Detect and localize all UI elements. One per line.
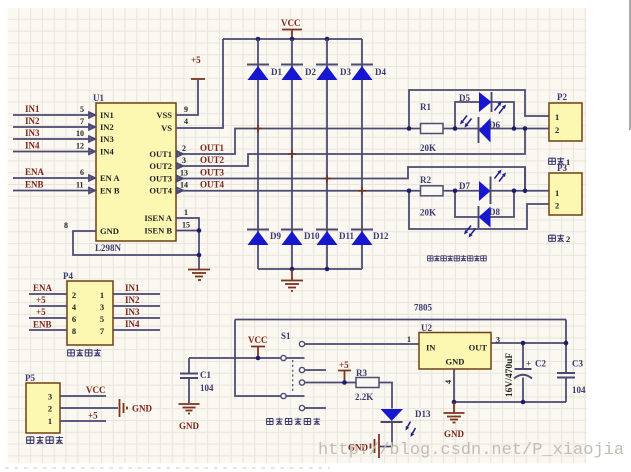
wire diode column 3 xyxy=(326,39,328,269)
svg-text:EN A: EN A xyxy=(100,173,120,183)
junction cross OUT2-col2 xyxy=(288,150,296,158)
LED D7 xyxy=(459,170,506,205)
svg-text:EN B: EN B xyxy=(100,186,120,196)
power +5 (VSS) xyxy=(191,55,205,79)
wire R3 to D13 xyxy=(379,383,392,409)
diode D9 xyxy=(247,230,281,246)
svg-text:13: 13 xyxy=(180,169,188,178)
power VCC top xyxy=(281,18,302,39)
wire IN3 xyxy=(13,128,96,139)
wire P4 IN2 xyxy=(113,295,160,306)
wire IN4 xyxy=(13,141,96,152)
svg-text:R3: R3 xyxy=(356,368,367,378)
svg-text:http://blog.csdn.net/P_xiaojia: http://blog.csdn.net/P_xiaojia xyxy=(318,441,624,460)
svg-text:ENA: ENA xyxy=(25,167,45,177)
svg-text:IN2: IN2 xyxy=(125,295,140,305)
svg-text:2: 2 xyxy=(555,201,559,211)
diode D10 xyxy=(281,230,320,246)
svg-text:+5: +5 xyxy=(36,307,46,317)
diode D3 xyxy=(316,65,351,81)
wire block1 outer loop to P2 pin1 xyxy=(409,90,549,129)
svg-text:+5: +5 xyxy=(339,360,349,370)
node U2 gnd xyxy=(452,400,457,405)
svg-text:D1: D1 xyxy=(271,67,282,77)
svg-text:1: 1 xyxy=(555,188,559,198)
wire P4 IN4 xyxy=(113,319,160,330)
ground below C1 xyxy=(179,404,200,414)
wire diode column 4 xyxy=(361,39,363,269)
svg-text:C2: C2 xyxy=(535,359,546,369)
wire block2 top OUT3 entry xyxy=(524,167,526,191)
regulator U2 xyxy=(407,303,500,385)
node C3 top xyxy=(564,341,569,346)
switch S1 xyxy=(281,331,305,411)
node rail-D10 xyxy=(290,267,295,272)
node block1 left xyxy=(407,126,412,131)
node C2 bottom xyxy=(521,400,526,405)
wire OUT4 net xyxy=(176,180,421,191)
wire bottom ground bus xyxy=(454,401,566,403)
node block2 inner right xyxy=(512,189,517,194)
node rail-D1 xyxy=(256,37,261,42)
svg-text:3: 3 xyxy=(100,302,104,312)
wire OUT3 net xyxy=(176,167,525,191)
svg-text:P4: P4 xyxy=(63,271,73,281)
svg-text:2: 2 xyxy=(555,125,559,135)
svg-text:P5: P5 xyxy=(25,373,35,383)
svg-text:GND: GND xyxy=(444,429,465,439)
wire throw2 stub xyxy=(305,369,327,371)
junction cross OUT3-col3 xyxy=(323,175,331,183)
svg-text:OUT2: OUT2 xyxy=(200,155,225,165)
node rail-D11 xyxy=(325,267,330,272)
svg-text:P2: P2 xyxy=(557,92,567,102)
svg-text:S1: S1 xyxy=(281,331,291,341)
svg-text:14: 14 xyxy=(180,181,188,190)
svg-text:IN3: IN3 xyxy=(100,134,114,144)
svg-text:L298N: L298N xyxy=(95,243,122,253)
connector P5 xyxy=(25,373,60,433)
label motor control xyxy=(68,350,75,356)
power +5 at R3 xyxy=(338,360,351,383)
wire diode column 1 xyxy=(257,39,259,269)
svg-text:IN4: IN4 xyxy=(100,147,114,157)
wire U2 GND pin 4 xyxy=(453,369,455,402)
node block1 P2 riser xyxy=(523,126,528,131)
wire throw4 stub xyxy=(305,407,327,409)
svg-text:U2: U2 xyxy=(421,323,432,333)
svg-text:ENB: ENB xyxy=(25,180,44,190)
wire throw3 to R3 xyxy=(305,382,357,384)
svg-text:IN3: IN3 xyxy=(125,307,140,317)
svg-text:+5: +5 xyxy=(36,295,46,305)
svg-text:+5: +5 xyxy=(88,411,98,421)
svg-text:IN: IN xyxy=(426,343,436,353)
svg-text:IN1: IN1 xyxy=(25,104,40,114)
svg-text:4: 4 xyxy=(444,380,453,384)
svg-text:IN4: IN4 xyxy=(125,319,140,329)
wire VSS pin 9 to +5 xyxy=(176,80,198,115)
svg-text:1: 1 xyxy=(48,416,52,426)
svg-text:OUT2: OUT2 xyxy=(149,161,172,171)
wire D13 to GND port xyxy=(380,423,392,447)
svg-text:R1: R1 xyxy=(420,102,431,112)
svg-text:1: 1 xyxy=(100,290,104,300)
junction cross OUT1-col1 xyxy=(254,125,262,133)
svg-text:6: 6 xyxy=(72,314,76,324)
capacitor C2 electrolytic xyxy=(514,343,546,402)
wire P4 IN1 xyxy=(113,283,160,294)
svg-text:P3: P3 xyxy=(557,163,567,173)
svg-text:D13: D13 xyxy=(415,409,431,419)
svg-text:GND: GND xyxy=(446,357,465,367)
svg-text:8: 8 xyxy=(72,326,76,336)
svg-text:1: 1 xyxy=(184,208,188,217)
LED D6 xyxy=(460,116,500,144)
svg-text:7: 7 xyxy=(80,117,84,126)
node rail-D2 xyxy=(290,37,295,42)
U1 input pin arrows xyxy=(89,112,95,193)
resistor R3 xyxy=(355,368,379,402)
svg-text:IN2: IN2 xyxy=(100,122,114,132)
svg-text:2: 2 xyxy=(182,144,186,153)
node block2 inner left xyxy=(453,189,458,194)
svg-text:3: 3 xyxy=(182,156,186,165)
svg-text:ENA: ENA xyxy=(33,283,53,293)
svg-text:OUT4: OUT4 xyxy=(200,180,225,190)
wire block1 main xyxy=(409,128,549,130)
svg-text:R2: R2 xyxy=(420,175,431,185)
diode D4 xyxy=(351,65,386,81)
wire block2 outer loop to P3 pin2 xyxy=(409,191,549,229)
wire P4 ENA xyxy=(29,283,67,294)
resistor R2 xyxy=(420,175,443,218)
svg-text:D2: D2 xyxy=(305,67,316,77)
power port GND at P5 xyxy=(120,399,153,417)
power VCC at switch xyxy=(248,335,268,358)
diode D12 xyxy=(351,230,389,246)
svg-text:ISEN A: ISEN A xyxy=(144,213,172,223)
svg-text:OUT1: OUT1 xyxy=(200,143,225,153)
wire IN1 xyxy=(13,104,96,115)
svg-text:16V/470uF: 16V/470uF xyxy=(505,353,515,398)
svg-text:VS: VS xyxy=(161,123,172,133)
svg-text:11: 11 xyxy=(76,181,84,190)
node block2 P3 entry xyxy=(523,189,528,194)
svg-text:D11: D11 xyxy=(339,231,355,241)
svg-text:104: 104 xyxy=(572,385,586,395)
svg-text:1: 1 xyxy=(555,112,559,122)
capacitor C1 xyxy=(180,358,214,403)
svg-text:GND: GND xyxy=(132,404,153,414)
svg-text:D12: D12 xyxy=(373,231,389,241)
wire OUT1 net xyxy=(176,129,409,155)
svg-text:D10: D10 xyxy=(304,231,320,241)
label motor1 xyxy=(549,158,556,164)
op-amp U1 body xyxy=(93,93,176,253)
diode D2 xyxy=(281,65,316,81)
connector P3 xyxy=(549,163,582,215)
label motor2 xyxy=(549,235,556,241)
svg-text:+5: +5 xyxy=(191,55,201,65)
ground below diode rail xyxy=(281,269,303,291)
svg-text:D8: D8 xyxy=(489,207,500,217)
wire ENB xyxy=(13,180,96,191)
junction cross OUT4-col4 xyxy=(358,187,366,195)
wire GND pin 8 of U1 xyxy=(64,221,199,255)
node block1 inner right xyxy=(512,126,517,131)
wire P5 GND xyxy=(60,407,118,409)
svg-text:GND: GND xyxy=(179,421,200,431)
svg-text:IN3: IN3 xyxy=(25,128,40,138)
svg-text:ENB: ENB xyxy=(33,320,52,330)
svg-text:ISEN B: ISEN B xyxy=(144,226,172,236)
junction ISEN B xyxy=(197,228,202,233)
wire top distribution xyxy=(235,319,566,321)
svg-text:+: + xyxy=(526,359,531,369)
svg-text:GND: GND xyxy=(100,226,119,236)
svg-text:D9: D9 xyxy=(270,231,281,241)
connector P4 xyxy=(63,271,113,345)
diode D1 xyxy=(247,65,282,81)
svg-text:D5: D5 xyxy=(459,93,470,103)
ground below U1 xyxy=(188,270,210,281)
svg-text:3: 3 xyxy=(48,392,52,402)
label system power xyxy=(27,437,34,444)
svg-text:D4: D4 xyxy=(375,67,386,77)
U1 output pin arrows xyxy=(177,151,183,193)
svg-text:5: 5 xyxy=(100,314,104,324)
svg-text:20K: 20K xyxy=(420,208,436,218)
svg-text:15: 15 xyxy=(182,221,190,230)
ground below U2 xyxy=(444,402,465,423)
resistor R1 xyxy=(420,102,443,153)
label power select switch xyxy=(267,419,273,425)
node rail-D3 xyxy=(325,37,330,42)
wire VCC to switch pole A xyxy=(189,357,281,359)
LED D8 xyxy=(464,206,500,238)
wire P4 +5 b xyxy=(29,307,67,318)
svg-text:VCC: VCC xyxy=(281,18,301,28)
svg-text:20K: 20K xyxy=(420,143,436,153)
svg-text:4: 4 xyxy=(184,117,188,126)
connector P2 xyxy=(549,92,582,141)
svg-text:OUT3: OUT3 xyxy=(200,168,225,178)
wire P4 ENB xyxy=(29,320,67,331)
wire bottom rail xyxy=(258,268,362,270)
diode D11 xyxy=(316,230,355,246)
svg-text:OUT3: OUT3 xyxy=(149,174,172,184)
wire IN2 xyxy=(13,116,96,127)
node +5 junction xyxy=(342,380,347,385)
right edge scroll line xyxy=(629,0,631,130)
svg-text:9: 9 xyxy=(184,105,188,114)
svg-text:8: 8 xyxy=(64,221,68,230)
node VCC junction xyxy=(256,356,261,361)
bottom dashed rule xyxy=(5,467,330,469)
svg-text:OUT1: OUT1 xyxy=(149,149,172,159)
wire diode column 2 xyxy=(291,39,293,269)
wire raw supply vertical xyxy=(235,320,281,397)
svg-text:D7: D7 xyxy=(459,181,470,191)
wire U2 OUT pin 3 xyxy=(491,342,566,344)
wire P5 +5 xyxy=(60,411,106,422)
wire block2 inner loop xyxy=(455,191,514,217)
wire P4 +5 a xyxy=(29,295,67,306)
LED D13 xyxy=(381,409,431,437)
svg-text:2.2K: 2.2K xyxy=(355,392,373,402)
wire block1 inner loop xyxy=(455,102,514,129)
wire ENA xyxy=(13,167,96,178)
svg-text:IN1: IN1 xyxy=(125,283,140,293)
svg-text:VCC: VCC xyxy=(248,335,268,345)
svg-text:1: 1 xyxy=(407,335,411,344)
svg-text:D3: D3 xyxy=(340,67,351,77)
node block1 inner left xyxy=(453,126,458,131)
svg-text:6: 6 xyxy=(80,168,84,177)
U1 pin names xyxy=(100,110,173,236)
wire ISEN B pin 15 xyxy=(176,221,199,231)
wire P4 IN3 xyxy=(113,307,160,318)
svg-text:C3: C3 xyxy=(572,359,583,369)
wire P5 VCC xyxy=(60,385,106,396)
svg-text:2: 2 xyxy=(566,234,570,244)
svg-text:104: 104 xyxy=(200,383,214,393)
svg-text:7805: 7805 xyxy=(414,303,433,313)
capacitor C3 xyxy=(557,320,586,403)
wire VS pin 4 riser to VCC rail xyxy=(176,39,223,128)
label motor direction indicator xyxy=(427,256,433,261)
power port GND at D13 xyxy=(348,434,379,458)
wire ISEN A pin 1 xyxy=(176,208,199,269)
svg-text:IN1: IN1 xyxy=(100,110,114,120)
svg-text:IN4: IN4 xyxy=(25,141,40,151)
svg-text:VSS: VSS xyxy=(156,110,172,120)
svg-text:VCC: VCC xyxy=(86,385,106,395)
node block2 left xyxy=(407,189,412,194)
svg-text:C1: C1 xyxy=(200,370,211,380)
wire throw1 to U2 IN xyxy=(305,343,420,345)
wire block2 main to P3 pin1 xyxy=(443,190,549,192)
svg-text:12: 12 xyxy=(76,142,84,151)
node C2 top xyxy=(521,341,526,346)
svg-text:OUT: OUT xyxy=(469,343,488,353)
svg-text:IN2: IN2 xyxy=(25,116,40,126)
svg-text:2: 2 xyxy=(72,290,76,300)
svg-text:2: 2 xyxy=(48,404,52,414)
svg-text:5: 5 xyxy=(80,105,84,114)
LED D5 xyxy=(459,92,506,114)
svg-text:U1: U1 xyxy=(93,93,104,103)
wire OUT2 net xyxy=(176,129,525,166)
svg-text:10: 10 xyxy=(76,129,84,138)
svg-text:D6: D6 xyxy=(489,120,500,130)
wire VCC top rail xyxy=(223,38,362,40)
junction GND wire xyxy=(197,253,202,258)
svg-text:OUT4: OUT4 xyxy=(149,186,172,196)
